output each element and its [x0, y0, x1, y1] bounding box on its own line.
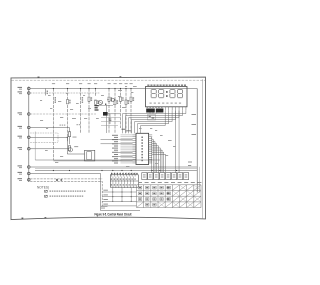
label key row 1 — [103, 190, 108, 191]
U1 pin L9 — [132, 149, 136, 151]
label column 53 — [55, 97, 56, 99]
wire display bus 7 — [141, 110, 166, 133]
wire column 2 — [67, 89, 69, 143]
resistor R2 — [67, 100, 69, 104]
wire U1 right fanout 8 — [152, 152, 164, 172]
wire stub left IC c — [101, 125, 118, 127]
wire stub left IC a — [101, 117, 120, 119]
wire column 1 — [52, 89, 54, 161]
bottom border tick B — [45, 217, 47, 218]
wire U1 right fanout 4 — [152, 144, 157, 173]
display DS1 pin labels top — [147, 85, 149, 86]
wire stub left IC b — [101, 121, 120, 123]
value label R9 — [128, 100, 129, 102]
U1 pin L12 — [132, 154, 136, 156]
svg-text:NOTES): NOTES) — [37, 186, 49, 190]
resistor R14 — [68, 146, 70, 151]
label Q cluster dark — [95, 105, 99, 106]
wire right vertical drop — [196, 89, 198, 193]
op-amp U1 main IC body — [136, 133, 149, 164]
wire key row 1 — [102, 191, 136, 193]
wire KR feed 1 — [30, 174, 140, 211]
value label R14 — [74, 145, 78, 148]
U1 pin L3 — [132, 138, 136, 140]
net label pin 4 — [18, 126, 23, 127]
wire U1 right fanout 9 — [152, 154, 166, 172]
wire pin6 row — [30, 136, 67, 138]
junction bus dots — [53, 170, 54, 171]
wire KR feed 2a — [30, 178, 102, 180]
net label pin 9 — [18, 178, 23, 179]
connector CN2 table — [110, 175, 138, 187]
U1 pin L1 — [132, 134, 136, 136]
crystal X1 — [103, 112, 108, 116]
wire column 7 — [114, 89, 116, 134]
U1 pin R4 — [149, 140, 153, 142]
label above IC — [122, 129, 126, 130]
value label R5 — [97, 100, 98, 102]
key header 2 — [148, 173, 153, 180]
key matrix grid — [137, 184, 202, 186]
capacitor C1 — [109, 114, 111, 124]
wire display bus 6 — [138, 110, 169, 133]
key header 6 — [172, 173, 177, 180]
wire display bus 1 — [123, 110, 186, 133]
display digit 2 — [159, 89, 164, 97]
right lower labels — [188, 162, 192, 163]
value label R6 — [111, 97, 112, 99]
U1 pin L16 — [132, 162, 136, 164]
legend line 2 — [45, 195, 48, 197]
wire column 8 — [120, 89, 122, 129]
connector CN1 pin 9 — [28, 179, 31, 182]
stub column x45 — [45, 89, 47, 96]
value label R8 — [122, 97, 123, 99]
wire pin5 row — [30, 127, 69, 129]
value label R7 — [117, 100, 118, 102]
net label pin 7 — [18, 165, 23, 166]
resistor R6 — [108, 97, 110, 101]
U1 pin R15 — [149, 160, 153, 162]
wire U1 right fanout 5 — [152, 146, 159, 173]
right side net labels — [192, 114, 197, 115]
wire pin4 row — [30, 113, 96, 115]
junction pin6 — [67, 137, 68, 138]
border frame outer — [11, 77, 206, 220]
transistor Q2 — [111, 98, 115, 102]
svg-text:Figure 9-5. Control Panel Circ: Figure 9-5. Control Panel Circuit — [95, 212, 133, 216]
net tag column 6 — [108, 82, 111, 85]
value label R13 — [73, 136, 77, 139]
resistor R4 — [88, 97, 90, 101]
U1 pin L5 — [132, 141, 136, 143]
U1 pin R2 — [149, 136, 153, 138]
U1 pin R12 — [149, 154, 153, 156]
misc tiny labels texture — [48, 94, 51, 97]
connector CN1 pin 2 — [28, 92, 31, 95]
U1 pin L14 — [132, 158, 136, 160]
junction column 1 — [53, 88, 54, 89]
net tag column 2 — [66, 82, 69, 85]
net tag column 3 — [79, 82, 82, 85]
U1 pin L15 — [132, 160, 136, 162]
value label R4 — [91, 97, 92, 99]
resistor R7 — [114, 100, 116, 104]
junction column 6 — [108, 88, 109, 89]
U1 pin L10 — [132, 151, 136, 153]
wire U1 left 2 — [101, 143, 133, 145]
net tag column 5 — [94, 82, 97, 85]
connector CN1 vertical bus — [28, 87, 30, 183]
label key row 4 — [103, 204, 108, 205]
key header 1 — [142, 173, 147, 180]
U1 pin R10 — [149, 151, 153, 153]
net label pin 5 — [18, 136, 23, 137]
connector CN1 pin 3 — [28, 113, 31, 116]
net tag column 4 — [88, 82, 91, 85]
U1 pin R5 — [149, 141, 153, 143]
legend line 1 — [45, 190, 48, 192]
display digit 4 — [178, 89, 183, 97]
junction column 2 — [67, 88, 68, 89]
net label pin 3 — [18, 112, 23, 113]
wire vertical x67.3 — [66, 137, 68, 154]
U1 pin R1 — [149, 134, 153, 136]
U1 pin L6 — [132, 143, 136, 145]
connector CN1 pin 6 — [28, 148, 31, 151]
wire column 4 — [88, 89, 90, 134]
junction column 3 — [80, 88, 81, 89]
key switches and unused hatch — [138, 186, 141, 189]
value label R2 — [69, 100, 70, 102]
wire vertical x35.2 — [34, 132, 36, 161]
key header 7 — [178, 173, 183, 180]
resistor R10 — [130, 97, 132, 101]
junction column 4 — [88, 88, 89, 89]
wire U1 right fanout 2 — [152, 139, 153, 172]
U1 pin R3 — [149, 138, 153, 140]
resistor R13 — [68, 132, 70, 137]
label RA1 — [60, 125, 61, 126]
wire display bus 4 — [132, 110, 176, 133]
net tag column 8 — [119, 82, 122, 85]
connector bar dark A — [146, 109, 155, 113]
wire pin7 row — [30, 148, 68, 150]
display digit 1 — [151, 89, 156, 97]
connector bar ticks below — [149, 113, 151, 114]
wire U1 left 1 — [101, 139, 133, 141]
tick marks feed 2 — [56, 179, 58, 180]
wire cluster down — [105, 105, 107, 133]
wire display bus 5 — [135, 110, 173, 133]
wire column 3 — [80, 89, 82, 134]
display DS1 pins bottom — [164, 107, 166, 111]
U1 pin R6 — [149, 143, 153, 145]
wire U1 right fanout 1 — [151, 137, 154, 172]
wire column 9 — [125, 89, 127, 134]
U1 pin R16 — [149, 162, 153, 164]
transistor Q4 — [68, 148, 72, 152]
net tag column 9 — [125, 82, 128, 85]
U1 pin L2 — [132, 136, 136, 138]
border frame inner right — [202, 79, 204, 219]
wire crystal to IC — [108, 113, 120, 115]
key header 5 — [166, 173, 171, 180]
U1 pin R14 — [149, 158, 153, 160]
wire display right drop 1 — [175, 110, 177, 172]
connector CN1 pin 8 — [28, 172, 31, 175]
wire key row 2 — [102, 196, 136, 198]
U1 pin R11 — [149, 153, 153, 155]
CN2 cell text — [111, 179, 112, 180]
wire pin5b row — [30, 133, 58, 142]
U1 pin L7 — [132, 145, 136, 147]
wire U1 right fanout 7 — [152, 150, 162, 172]
U1 pin L13 — [132, 156, 136, 158]
junction column 9 — [125, 88, 126, 89]
wire bus y170.5 — [35, 170, 197, 172]
connector bar pin text — [147, 107, 149, 108]
key header 8 — [183, 173, 188, 180]
wire bus y167 — [30, 166, 197, 168]
key column labels — [138, 182, 142, 183]
value label R10 — [133, 97, 134, 99]
display digit 3 — [170, 89, 175, 97]
wire bus y168.4 — [35, 167, 197, 169]
wire right inner vertical — [199, 167, 201, 193]
U1 pin R8 — [149, 147, 153, 149]
wire display right drop 2 — [178, 110, 180, 172]
wire vertical x69.5 — [69, 128, 71, 145]
border frame inner top — [12, 79, 206, 81]
U1 pin R13 — [149, 156, 153, 158]
wire column 5 — [95, 89, 97, 97]
wire VCC top bus — [30, 88, 197, 90]
wire column 10 — [130, 89, 132, 134]
transistor Q1 — [99, 101, 103, 105]
wire U1 right fanout 6 — [152, 148, 160, 172]
wire display bus 2 — [126, 110, 183, 133]
U1 pin L8 — [132, 147, 136, 149]
U1 pin R9 — [149, 149, 153, 151]
connector CN1 pin 1 — [28, 87, 31, 90]
wire dashed y142.4 — [30, 141, 58, 143]
U1 left pin labels — [112, 135, 118, 136]
wire U1 left 3 — [118, 151, 133, 153]
wire U1 right fanout 3 — [152, 142, 155, 173]
U1 pin R7 — [149, 145, 153, 147]
key header 3 — [154, 173, 159, 180]
display DS1 box — [146, 87, 188, 107]
display indicator labels — [150, 103, 152, 104]
junction Q node — [105, 104, 106, 105]
CN2 pin numbers — [111, 173, 113, 174]
wire display bus 3 — [129, 110, 180, 133]
U1 pin L4 — [132, 140, 136, 142]
wire GND second bus — [30, 92, 100, 94]
label RA2 — [77, 124, 78, 125]
wire column 6 — [108, 89, 110, 134]
key header 4 — [160, 173, 165, 180]
U1 left pin stub wires — [121, 134, 133, 136]
U1 part number vertical — [141, 137, 143, 139]
connector CN1 pin 4 — [28, 126, 31, 129]
label box CN pins — [148, 115, 156, 121]
junction column 5 — [95, 88, 96, 89]
wire Q4 to buzzer — [67, 153, 84, 155]
net label pin 1 — [18, 87, 23, 88]
net tag column 1 — [52, 82, 55, 85]
label key row 2 — [103, 194, 108, 195]
resistor R8 — [120, 97, 122, 101]
junction column 8 — [120, 88, 121, 89]
net label pin 8 — [18, 172, 23, 173]
junction column 10 — [130, 88, 131, 89]
junction column 7 — [114, 88, 115, 89]
U1 pin L11 — [132, 153, 136, 155]
label column 80 — [82, 97, 83, 99]
label key row 3 — [103, 199, 108, 200]
net tag column 10 — [130, 82, 133, 85]
connector bar dark B — [156, 109, 164, 113]
junction row dots — [112, 191, 113, 192]
wire U1 left 5 — [53, 160, 132, 162]
wire bus y160 — [35, 159, 160, 161]
wire U1 left 4 — [118, 156, 133, 158]
net label pin 2 — [18, 91, 23, 92]
display colon — [166, 91, 168, 93]
CN2 pin stubs — [111, 173, 113, 177]
connector CN1 pin 5 — [28, 136, 31, 139]
net tag column 7 — [114, 82, 117, 85]
bottom border tick A — [22, 218, 24, 219]
label below key row — [101, 206, 108, 207]
net label pin 6 — [18, 147, 23, 148]
wire key row 3 — [102, 200, 136, 202]
wire KR feed 2b — [30, 181, 102, 206]
buzzer BZ1 — [85, 150, 95, 161]
wire key row 4 — [102, 205, 136, 207]
resistor R9 — [125, 100, 127, 104]
top border marks — [38, 77, 40, 78]
connector CN1 pin 7 — [28, 166, 31, 169]
resistor R5 — [95, 100, 97, 104]
